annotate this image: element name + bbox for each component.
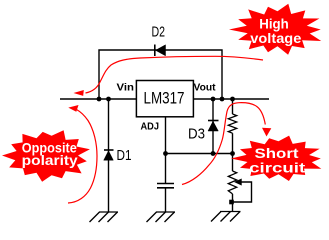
- diode D1: [104, 147, 132, 164]
- potentiometer R2 (ADJ to ground): [228, 154, 236, 212]
- svg-text:Vout: Vout: [194, 83, 217, 94]
- callout starburst: Opposite polarity: [2, 130, 90, 182]
- wire output rail right: [194, 98, 270, 100]
- node dot wiper-to-bottom: [229, 200, 234, 205]
- op-amp regulator U1 LM317 box: [136, 81, 193, 117]
- svg-text:circuit: circuit: [249, 161, 306, 176]
- arrowhead (short circuit): [262, 128, 271, 137]
- annotation curve from output to Short circuit: [182, 103, 265, 185]
- svg-text:Vin: Vin: [117, 83, 135, 94]
- diode D2: [152, 24, 166, 57]
- svg-text:LM317: LM317: [144, 89, 185, 108]
- arrowhead (opposite polarity): [68, 105, 78, 112]
- potentiometer wiper arrow and loop: [233, 179, 252, 202]
- node dot top-loop right: [220, 97, 225, 102]
- ground for R2 branch: [211, 212, 241, 222]
- svg-text:High: High: [259, 17, 289, 32]
- node dot D1 branch: [106, 97, 111, 102]
- node dot top-loop left: [97, 97, 102, 102]
- ground for capacitor branch: [147, 212, 176, 222]
- annotation curve from High voltage to input: [86, 56, 264, 93]
- arrowhead (high voltage): [74, 90, 84, 96]
- wire input rail left: [60, 98, 136, 100]
- wire ADJ pin: [165, 117, 167, 154]
- wire top loop (Vin protection via D2): [99, 50, 222, 99]
- callout starburst: Short circuit: [231, 136, 321, 181]
- wire ADJ rail: [166, 153, 233, 155]
- annotation curve from Opposite polarity to input: [68, 110, 97, 204]
- ground for D1 branch: [90, 212, 119, 222]
- capacitor C1: [157, 184, 174, 188]
- svg-text:ADJ: ADJ: [141, 122, 160, 133]
- svg-text:voltage: voltage: [250, 31, 302, 46]
- svg-text:D1: D1: [117, 147, 132, 164]
- callout starburst: High voltage: [229, 4, 321, 55]
- capacitor C1 branch wire top: [165, 154, 167, 184]
- svg-text:polarity: polarity: [22, 153, 79, 168]
- diode D3: [188, 121, 219, 143]
- node dot ADJ junction: [163, 151, 168, 156]
- svg-text:Short: Short: [255, 146, 300, 161]
- node dot R1 bottom: [230, 151, 235, 156]
- node dot D3 bottom: [211, 151, 216, 156]
- node dot D3 branch top: [211, 97, 216, 102]
- wire D3 branch: [212, 99, 214, 154]
- resistor R1 (Vout to ADJ): [228, 99, 236, 154]
- svg-text:D2: D2: [152, 24, 166, 41]
- node dot R1 top: [230, 97, 235, 102]
- capacitor C1 branch wire bottom: [165, 188, 167, 212]
- svg-text:D3: D3: [188, 126, 205, 143]
- wire D1 branch: [108, 99, 110, 212]
